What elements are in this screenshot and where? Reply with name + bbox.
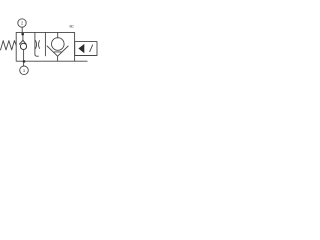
background <box>0 0 98 98</box>
wire main poppet stem upper <box>57 32 59 38</box>
internal divider line left <box>35 32 39 56</box>
main poppet V seat <box>47 46 68 56</box>
orifice (restriction) arcs <box>36 41 40 49</box>
main poppet ball <box>52 38 65 51</box>
solenoid box <box>75 42 97 56</box>
svg-text:BC: BC <box>70 25 75 29</box>
solenoid slash <box>90 45 93 52</box>
pilot check valve seat <box>19 40 26 44</box>
junction dot lower <box>23 60 26 63</box>
port 1 circle <box>20 66 29 75</box>
wire bottom line extension under solenoid <box>75 60 88 62</box>
solenoid triangle <box>78 44 84 53</box>
pilot check valve ball <box>20 43 26 49</box>
wire pilot check stem upper <box>22 35 24 41</box>
wire main poppet stem lower <box>57 56 59 61</box>
junction dot upper <box>21 33 24 36</box>
valve envelope box <box>16 32 74 61</box>
wire port 2 stem <box>21 27 23 33</box>
spring (return spring zigzag) <box>1 41 17 50</box>
internal divider line right <box>44 32 46 55</box>
main poppet seat line <box>54 51 61 53</box>
port 2 circle <box>18 19 26 27</box>
wire pilot check stem lower to port 1 <box>23 50 25 67</box>
